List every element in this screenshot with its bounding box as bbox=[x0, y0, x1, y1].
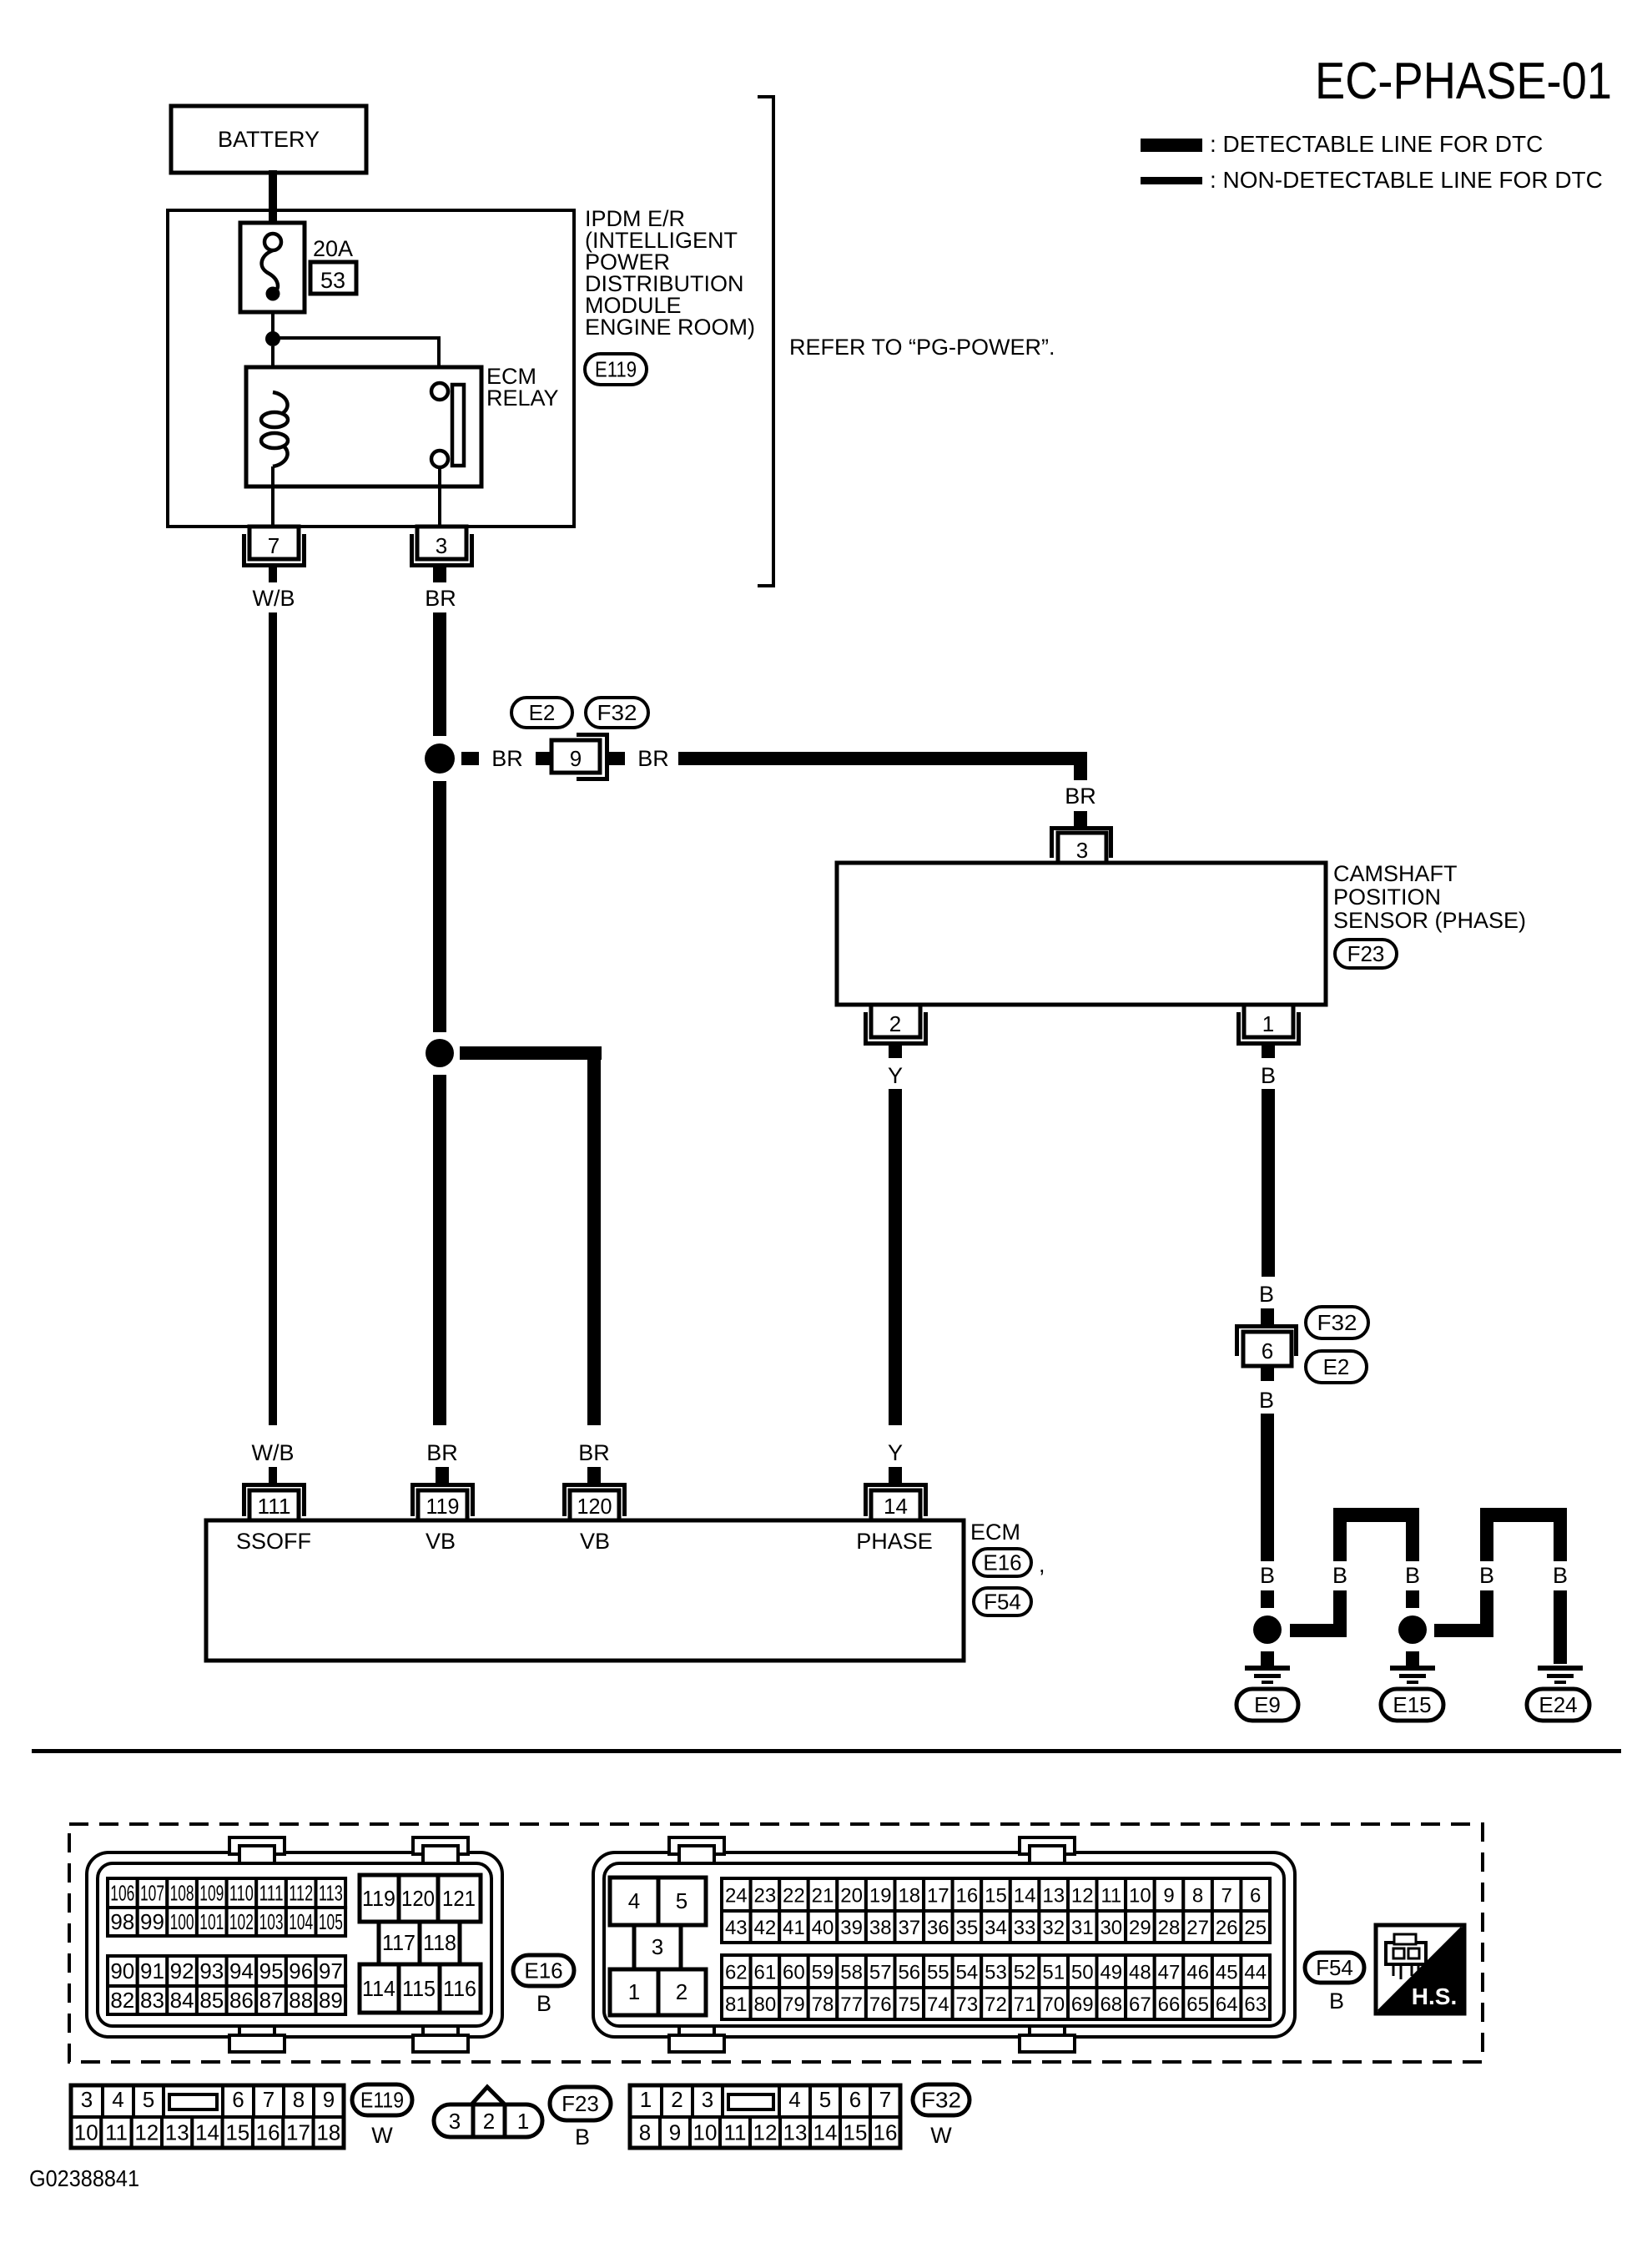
connector oval F54 (view) bbox=[1305, 1953, 1364, 1983]
pin 3 (camshaft sensor) bbox=[1052, 829, 1111, 859]
svg-text:28: 28 bbox=[1158, 1917, 1181, 1939]
svg-text:88: 88 bbox=[289, 1988, 313, 2013]
svg-text:91: 91 bbox=[140, 1958, 164, 1983]
E16 pin cell 115 bbox=[399, 1964, 440, 2013]
svg-text:2: 2 bbox=[671, 2087, 682, 2112]
svg-text:96: 96 bbox=[289, 1958, 313, 1983]
connector detail dashed frame bbox=[69, 1824, 1483, 2062]
connector oval E16 (view) bbox=[513, 1955, 574, 1986]
svg-text:2: 2 bbox=[483, 2109, 495, 2134]
svg-text:35: 35 bbox=[956, 1917, 979, 1939]
svg-text:53: 53 bbox=[985, 1962, 1007, 1984]
IPDM E/R box (E119) bbox=[168, 210, 574, 527]
svg-text:B: B bbox=[536, 1991, 552, 2016]
svg-text:85: 85 bbox=[199, 1988, 224, 2013]
E16 pin row 90-97 bbox=[108, 1956, 138, 1986]
svg-text:,: , bbox=[1039, 1552, 1045, 1577]
svg-text:25: 25 bbox=[1244, 1917, 1267, 1939]
in-line connector pin 6 bbox=[1237, 1327, 1297, 1357]
svg-text:49: 49 bbox=[1100, 1962, 1122, 1984]
svg-text:13: 13 bbox=[1042, 1885, 1065, 1908]
ground symbol E24 bbox=[1538, 1666, 1583, 1671]
wire battery to IPDM (W) bbox=[269, 170, 277, 224]
svg-text:48: 48 bbox=[1129, 1962, 1151, 1984]
svg-text:94: 94 bbox=[229, 1958, 254, 1983]
fuse number box 53 bbox=[310, 262, 356, 294]
svg-text:F54: F54 bbox=[1316, 1955, 1353, 1980]
connector E16 bottom tab 1 bbox=[239, 2026, 274, 2043]
wire contact to pin 3 bbox=[438, 467, 441, 527]
svg-text:7: 7 bbox=[268, 533, 280, 558]
wire fuse to junction bbox=[271, 312, 274, 332]
svg-text:Y: Y bbox=[888, 1063, 903, 1088]
svg-text:4: 4 bbox=[628, 1888, 640, 1913]
svg-text:98: 98 bbox=[110, 1909, 134, 1934]
wire coil to pin 7 bbox=[271, 466, 274, 527]
svg-text:118: 118 bbox=[423, 1930, 456, 1955]
relay box ECM RELAY bbox=[246, 367, 481, 486]
svg-text:12: 12 bbox=[1071, 1885, 1094, 1908]
svg-text:B: B bbox=[575, 2125, 590, 2150]
svg-text:BR: BR bbox=[1065, 784, 1096, 809]
wire stub into connector 9 bbox=[536, 752, 555, 765]
H.S. connector icon bbox=[1386, 1943, 1426, 1964]
fuse 20A box bbox=[240, 223, 305, 312]
svg-text:113: 113 bbox=[319, 1881, 343, 1906]
F54 pin row 62-44 bbox=[722, 1955, 751, 1988]
svg-text:114: 114 bbox=[362, 1976, 395, 2001]
svg-text:11: 11 bbox=[105, 2120, 128, 2145]
svg-text:B: B bbox=[1259, 1282, 1274, 1307]
wire Y pin2 to ECM pin 14 bbox=[889, 1089, 902, 1425]
pin 3 (IPDM) bbox=[412, 534, 472, 566]
svg-text:E15: E15 bbox=[1393, 1692, 1431, 1717]
svg-text:1: 1 bbox=[1262, 1011, 1274, 1036]
svg-text:F32: F32 bbox=[597, 700, 637, 725]
relay contact upper terminal bbox=[431, 383, 448, 400]
svg-text:18: 18 bbox=[316, 2120, 340, 2145]
svg-text:108: 108 bbox=[170, 1881, 194, 1906]
svg-text:62: 62 bbox=[725, 1962, 748, 1984]
svg-text:RELAY: RELAY bbox=[486, 386, 559, 411]
svg-text:104: 104 bbox=[289, 1909, 313, 1934]
connector oval E2 (above 9) bbox=[511, 698, 572, 728]
svg-text:14: 14 bbox=[813, 2120, 838, 2145]
wire U2 left leg to E15 splice bbox=[1480, 1590, 1493, 1637]
connector oval F32 (view) bbox=[913, 2084, 970, 2115]
svg-text:22: 22 bbox=[783, 1885, 805, 1908]
svg-text:9: 9 bbox=[1163, 1885, 1174, 1908]
svg-text:72: 72 bbox=[985, 1993, 1007, 2016]
svg-text:8: 8 bbox=[293, 2087, 305, 2112]
svg-text:60: 60 bbox=[783, 1962, 805, 1984]
svg-text:3: 3 bbox=[449, 2109, 461, 2134]
svg-text:: DETECTABLE LINE FOR DTC: : DETECTABLE LINE FOR DTC bbox=[1210, 131, 1543, 157]
svg-text:15: 15 bbox=[225, 2120, 249, 2145]
connector oval E2 (right of 6) bbox=[1306, 1351, 1367, 1383]
svg-text:E16: E16 bbox=[983, 1550, 1021, 1575]
svg-text:67: 67 bbox=[1129, 1993, 1151, 2016]
svg-text:ECM: ECM bbox=[970, 1520, 1020, 1545]
svg-text:112: 112 bbox=[289, 1881, 313, 1906]
wire E9 splice to ground bbox=[1261, 1651, 1274, 1666]
svg-text:W/B: W/B bbox=[252, 1440, 295, 1465]
E16 pin cell 117 bbox=[379, 1922, 420, 1964]
svg-text:BR: BR bbox=[425, 586, 456, 611]
svg-text:69: 69 bbox=[1071, 1993, 1094, 2016]
svg-text:F32: F32 bbox=[1317, 1310, 1357, 1335]
F54 pin cell 2 bbox=[658, 1969, 706, 2015]
junction node (fuse output) bbox=[265, 331, 280, 346]
E119 pin row 10-18 bbox=[71, 2117, 101, 2148]
svg-text:53: 53 bbox=[320, 268, 345, 293]
svg-text:74: 74 bbox=[927, 1993, 949, 2016]
svg-text:8: 8 bbox=[1192, 1885, 1203, 1908]
svg-text:57: 57 bbox=[869, 1962, 892, 1984]
legend non-detectable line sample bar bbox=[1141, 177, 1202, 184]
svg-text:B: B bbox=[1259, 1388, 1274, 1413]
svg-text:Y: Y bbox=[888, 1440, 903, 1465]
connector E16 top tab 1 bbox=[229, 1837, 285, 1854]
svg-text:5: 5 bbox=[143, 2087, 154, 2112]
ground symbol E9 bbox=[1245, 1666, 1290, 1671]
svg-text:42: 42 bbox=[754, 1917, 777, 1939]
svg-text:19: 19 bbox=[869, 1885, 892, 1908]
svg-text:73: 73 bbox=[956, 1993, 979, 2016]
fuse element bbox=[264, 234, 281, 250]
svg-text:27: 27 bbox=[1186, 1917, 1209, 1939]
wire stub above pin 14 bbox=[889, 1467, 902, 1483]
ground splice node E9 bbox=[1253, 1615, 1282, 1644]
junction node B (BR splice) bbox=[426, 1039, 454, 1067]
svg-text:15: 15 bbox=[844, 2120, 868, 2145]
wire U1 left leg to E9 splice bbox=[1333, 1590, 1347, 1637]
svg-text:79: 79 bbox=[783, 1993, 805, 2016]
svg-text:G02388841: G02388841 bbox=[29, 2165, 139, 2191]
svg-text:20A: 20A bbox=[313, 236, 353, 261]
F32 pin row 8-16 bbox=[630, 2117, 660, 2148]
camshaft position sensor box bbox=[837, 863, 1326, 1005]
wire stub below pin 2 bbox=[889, 1046, 902, 1058]
connector oval E119 bbox=[585, 354, 647, 385]
connector oval F32 (above 9) bbox=[586, 698, 648, 728]
svg-text:9: 9 bbox=[570, 746, 582, 771]
svg-text:8: 8 bbox=[639, 2120, 651, 2145]
svg-text:5: 5 bbox=[676, 1888, 687, 1913]
svg-text:3: 3 bbox=[436, 533, 447, 558]
wire junction A stub right bbox=[461, 752, 479, 765]
F32 pin row 1-7 bbox=[630, 2085, 662, 2117]
svg-text:55: 55 bbox=[927, 1962, 949, 1984]
E16 pin cell 120 bbox=[399, 1875, 438, 1922]
svg-text:95: 95 bbox=[259, 1958, 284, 1983]
svg-text:3: 3 bbox=[1076, 838, 1088, 863]
F32 outer frame bbox=[630, 2085, 900, 2148]
F54 pin cell 5 bbox=[658, 1878, 706, 1925]
connector F54 bottom tab 2 bbox=[1030, 2026, 1065, 2043]
E16 pin cell 121 bbox=[438, 1875, 481, 1922]
svg-text:109: 109 bbox=[199, 1881, 224, 1906]
svg-text:17: 17 bbox=[286, 2120, 310, 2145]
svg-text:70: 70 bbox=[1042, 1993, 1065, 2016]
connector F54 top tab 1 bbox=[669, 1837, 724, 1854]
relay contact bar bbox=[452, 385, 464, 466]
svg-text:10: 10 bbox=[1129, 1885, 1151, 1908]
svg-text:EC-PHASE-01: EC-PHASE-01 bbox=[1315, 53, 1612, 110]
svg-text:81: 81 bbox=[725, 1993, 748, 2016]
wire BR pin3 to junction A bbox=[433, 612, 446, 736]
svg-text:10: 10 bbox=[74, 2120, 98, 2145]
svg-text:66: 66 bbox=[1158, 1993, 1181, 2016]
F54 pin cell 1 bbox=[610, 1969, 658, 2015]
junction node A (BR splice) bbox=[425, 743, 455, 774]
connector oval F32 (right of 6) bbox=[1306, 1307, 1368, 1338]
svg-text:11: 11 bbox=[724, 2120, 747, 2145]
svg-text:110: 110 bbox=[229, 1881, 254, 1906]
ground oval E24 bbox=[1527, 1689, 1589, 1721]
svg-text:F23: F23 bbox=[1347, 941, 1385, 966]
wire stub above pin 111 bbox=[269, 1467, 277, 1483]
svg-text:33: 33 bbox=[1014, 1917, 1036, 1939]
svg-text:18: 18 bbox=[898, 1885, 920, 1908]
legend detectable line sample bar bbox=[1141, 139, 1202, 152]
svg-text:6: 6 bbox=[232, 2087, 244, 2112]
svg-text:PHASE: PHASE bbox=[856, 1529, 933, 1554]
svg-text:E2: E2 bbox=[1323, 1354, 1350, 1379]
svg-text:87: 87 bbox=[259, 1988, 284, 2013]
svg-text:POSITION: POSITION bbox=[1333, 885, 1441, 910]
svg-text:52: 52 bbox=[1014, 1962, 1036, 1984]
svg-text:80: 80 bbox=[754, 1993, 777, 2016]
svg-text:E119: E119 bbox=[360, 2088, 404, 2113]
E16 pin cell 114 bbox=[360, 1964, 399, 2013]
svg-text:11: 11 bbox=[1100, 1885, 1121, 1908]
svg-text:16: 16 bbox=[256, 2120, 280, 2145]
relay contact lower terminal bbox=[431, 451, 448, 467]
svg-text:3: 3 bbox=[702, 2087, 713, 2112]
svg-text:92: 92 bbox=[170, 1958, 194, 1983]
svg-text:12: 12 bbox=[134, 2120, 159, 2145]
svg-text:1: 1 bbox=[517, 2109, 529, 2134]
E16 pin cell 118 bbox=[420, 1922, 460, 1964]
svg-text:54: 54 bbox=[956, 1962, 979, 1984]
svg-text:CAMSHAFT: CAMSHAFT bbox=[1333, 861, 1458, 886]
wire stub above pin 120 bbox=[587, 1467, 601, 1483]
wire stub above camshaft pin 3 bbox=[1074, 811, 1087, 826]
ECM box bbox=[206, 1520, 964, 1661]
svg-text:BR: BR bbox=[426, 1440, 458, 1465]
svg-text:B: B bbox=[1405, 1563, 1420, 1588]
E16 pin cell 116 bbox=[440, 1964, 481, 2013]
F54 pin cell 3 bbox=[634, 1925, 681, 1969]
E119 pin row 3-9 bbox=[71, 2085, 103, 2117]
pin 120 (ECM) bbox=[565, 1485, 625, 1517]
connector oval F23 (view) bbox=[550, 2087, 611, 2120]
svg-text:64: 64 bbox=[1216, 1993, 1238, 2016]
svg-text:105: 105 bbox=[319, 1909, 343, 1934]
connector F54 top tab 2 bbox=[1020, 1837, 1075, 1854]
svg-text:6: 6 bbox=[1250, 1885, 1261, 1908]
svg-text:32: 32 bbox=[1042, 1917, 1065, 1939]
wire stub out of connector 6 bbox=[1261, 1366, 1274, 1381]
svg-text:3: 3 bbox=[652, 1934, 663, 1959]
svg-text:120: 120 bbox=[401, 1886, 435, 1911]
E16 pin row 106-113 bbox=[108, 1878, 138, 1908]
svg-text:119: 119 bbox=[426, 1494, 460, 1519]
relay coil bbox=[273, 392, 288, 413]
svg-text:116: 116 bbox=[443, 1976, 476, 2001]
svg-text:9: 9 bbox=[323, 2087, 335, 2112]
svg-text:W/B: W/B bbox=[253, 586, 295, 611]
in-line connector pin 9 bbox=[577, 735, 607, 779]
svg-text:65: 65 bbox=[1186, 1993, 1209, 2016]
svg-text:68: 68 bbox=[1100, 1993, 1122, 2016]
svg-text:75: 75 bbox=[898, 1993, 920, 2016]
F54 pin row 43-25 bbox=[722, 1911, 751, 1943]
wire junction to relay contact bbox=[273, 336, 439, 340]
svg-text:103: 103 bbox=[259, 1909, 284, 1934]
wire stub below pin 7 bbox=[269, 567, 277, 582]
svg-text:59: 59 bbox=[812, 1962, 834, 1984]
svg-text:7: 7 bbox=[879, 2087, 891, 2112]
wire junction A to junction B bbox=[433, 781, 446, 1032]
svg-text:SENSOR (PHASE): SENSOR (PHASE) bbox=[1333, 908, 1526, 933]
svg-text:106: 106 bbox=[110, 1881, 134, 1906]
bracket for PG-POWER reference bbox=[758, 97, 773, 586]
svg-text:2: 2 bbox=[676, 1979, 687, 2004]
svg-text:14: 14 bbox=[1014, 1885, 1036, 1908]
svg-text:120: 120 bbox=[577, 1494, 612, 1519]
wire stub below pin 1 bbox=[1262, 1046, 1275, 1058]
svg-text:107: 107 bbox=[140, 1881, 164, 1906]
svg-text:50: 50 bbox=[1071, 1962, 1094, 1984]
svg-text:29: 29 bbox=[1129, 1917, 1151, 1939]
wire stub above E9 splice bbox=[1261, 1590, 1274, 1608]
svg-text:36: 36 bbox=[927, 1917, 949, 1939]
svg-text:E119: E119 bbox=[595, 357, 637, 382]
svg-text:ENGINE ROOM): ENGINE ROOM) bbox=[585, 315, 755, 340]
svg-text:W: W bbox=[371, 2123, 393, 2148]
svg-text:7: 7 bbox=[263, 2087, 274, 2112]
connector oval E119 (view) bbox=[352, 2084, 412, 2115]
svg-text:83: 83 bbox=[140, 1988, 164, 2013]
svg-text:F23: F23 bbox=[562, 2091, 599, 2116]
E16 pin row 82-89 bbox=[108, 1986, 138, 2014]
svg-text:38: 38 bbox=[869, 1917, 892, 1939]
pin 2 (camshaft sensor) bbox=[866, 1012, 926, 1044]
svg-text:51: 51 bbox=[1042, 1962, 1065, 1984]
svg-text:4: 4 bbox=[788, 2087, 800, 2112]
svg-text:26: 26 bbox=[1216, 1917, 1238, 1939]
E119 outer frame bbox=[71, 2085, 344, 2148]
connector oval E16 (ECM) bbox=[974, 1549, 1031, 1576]
F54 pin cell 4 bbox=[610, 1878, 658, 1925]
svg-text:45: 45 bbox=[1216, 1962, 1238, 1984]
E16 pin cell 119 bbox=[360, 1875, 399, 1922]
svg-text:4: 4 bbox=[112, 2087, 123, 2112]
svg-text:F32: F32 bbox=[921, 2088, 961, 2113]
svg-text:31: 31 bbox=[1071, 1917, 1094, 1939]
svg-text:58: 58 bbox=[840, 1962, 863, 1984]
wire junction to relay coil bbox=[271, 346, 274, 393]
svg-text:43: 43 bbox=[725, 1917, 748, 1939]
wire U2 right leg to E24 ground bbox=[1554, 1590, 1567, 1664]
svg-text:46: 46 bbox=[1186, 1962, 1209, 1984]
svg-text:93: 93 bbox=[199, 1958, 224, 1983]
connector E16 bottom tab 2 bbox=[423, 2026, 458, 2043]
ground link U2 (E15 to E24) bbox=[1480, 1508, 1567, 1522]
svg-text:H.S.: H.S. bbox=[1412, 1983, 1457, 2009]
svg-text:VB: VB bbox=[426, 1529, 456, 1554]
svg-text:24: 24 bbox=[725, 1885, 748, 1908]
svg-text:117: 117 bbox=[382, 1930, 416, 1955]
F54 pin row 81-63 bbox=[722, 1988, 751, 2019]
svg-text:121: 121 bbox=[442, 1886, 476, 1911]
svg-text:97: 97 bbox=[319, 1958, 343, 1983]
svg-text:13: 13 bbox=[165, 2120, 189, 2145]
svg-text:3: 3 bbox=[81, 2087, 93, 2112]
svg-text:63: 63 bbox=[1244, 1993, 1267, 2016]
svg-text:6: 6 bbox=[1262, 1338, 1273, 1363]
svg-text:111: 111 bbox=[259, 1881, 284, 1906]
wire stub into connector 6 bbox=[1261, 1308, 1274, 1324]
connector E16 top tab 2 bbox=[413, 1837, 468, 1854]
wire stub above pin 119 bbox=[436, 1467, 449, 1483]
svg-text:E16: E16 bbox=[524, 1958, 562, 1983]
svg-text:E2: E2 bbox=[529, 700, 556, 725]
svg-text:21: 21 bbox=[812, 1885, 834, 1908]
svg-text:10: 10 bbox=[693, 2120, 718, 2145]
ground oval E9 bbox=[1236, 1689, 1298, 1721]
connector E16 shell bbox=[87, 1852, 502, 2037]
svg-text:BR: BR bbox=[578, 1440, 610, 1465]
wire junction B to ECM pin 119 bbox=[433, 1075, 446, 1425]
H.S. view mark frame bbox=[1376, 1925, 1464, 2014]
svg-text:F54: F54 bbox=[984, 1590, 1021, 1615]
svg-text:40: 40 bbox=[812, 1917, 834, 1939]
svg-text:B: B bbox=[1261, 1063, 1276, 1088]
svg-text:BATTERY: BATTERY bbox=[218, 127, 320, 152]
svg-text:6: 6 bbox=[849, 2087, 861, 2112]
svg-text:13: 13 bbox=[783, 2120, 808, 2145]
pin 1 (camshaft sensor) bbox=[1239, 1012, 1299, 1044]
svg-text:61: 61 bbox=[754, 1962, 777, 1984]
svg-text:39: 39 bbox=[840, 1917, 863, 1939]
svg-text:B: B bbox=[1553, 1563, 1568, 1588]
svg-text:B: B bbox=[1329, 1988, 1344, 2014]
wire BR run to camshaft sensor bbox=[678, 752, 1087, 765]
pin 14 (ECM) bbox=[866, 1485, 926, 1517]
svg-text:34: 34 bbox=[985, 1917, 1007, 1939]
svg-text:17: 17 bbox=[927, 1885, 949, 1908]
svg-text:111: 111 bbox=[258, 1494, 291, 1519]
wire E15 splice to ground bbox=[1406, 1651, 1419, 1666]
svg-text:86: 86 bbox=[229, 1988, 254, 2013]
svg-text:1: 1 bbox=[628, 1979, 640, 2004]
svg-text:16: 16 bbox=[956, 1885, 979, 1908]
E16 pin row 98-105 bbox=[108, 1908, 138, 1936]
svg-text:12: 12 bbox=[753, 2120, 778, 2145]
svg-text:BR: BR bbox=[637, 746, 669, 771]
svg-text:119: 119 bbox=[362, 1886, 395, 1911]
svg-text:30: 30 bbox=[1100, 1917, 1122, 1939]
svg-text:14: 14 bbox=[884, 1494, 908, 1519]
pin 7 (IPDM) bbox=[244, 534, 305, 566]
wire stub out of connector 9 bbox=[608, 752, 625, 765]
battery box bbox=[171, 106, 366, 173]
svg-text:BR: BR bbox=[491, 746, 523, 771]
svg-text:15: 15 bbox=[985, 1885, 1007, 1908]
